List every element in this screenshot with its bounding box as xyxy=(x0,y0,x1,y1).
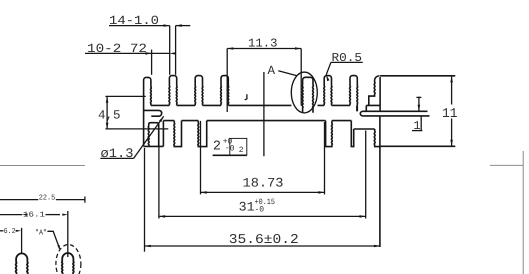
dimension 14-1.0 xyxy=(109,14,190,75)
left wall J-hook xyxy=(144,110,162,116)
label quoted A with leader xyxy=(35,228,60,250)
heatsink upper fin 2 xyxy=(169,76,177,106)
svg-text:R0.5: R0.5 xyxy=(332,51,363,65)
dimension 31 +0.15/-0 xyxy=(159,131,366,219)
detail view fin right (detail A) xyxy=(62,253,74,274)
lower fin D thin xyxy=(351,121,353,147)
floor between fin C and D xyxy=(332,120,351,122)
heatsink profile left wall and fin 1 xyxy=(144,77,152,146)
label R0.5 with leader xyxy=(326,51,363,81)
block top flat surface xyxy=(380,75,455,77)
lower fin C xyxy=(326,121,333,147)
notch above slot cap xyxy=(357,105,366,111)
dimension 22.5 xyxy=(0,193,85,202)
svg-text:22.5: 22.5 xyxy=(39,193,56,202)
detail ellipse A xyxy=(291,72,317,113)
dimension 11 xyxy=(441,76,459,146)
small tick mark xyxy=(245,94,247,100)
dimension 18.73 xyxy=(201,121,325,194)
dimension 1 at slot xyxy=(412,97,422,134)
dashed detail ellipse xyxy=(56,245,81,274)
slot rounded left cap xyxy=(360,111,363,116)
svg-text:31: 31 xyxy=(239,200,255,215)
dimension 16.1 xyxy=(0,210,68,257)
slot lower line xyxy=(363,115,430,117)
sheet frame line (gray, left) xyxy=(0,164,85,166)
foot bottom xyxy=(144,145,164,147)
label A with leader xyxy=(268,64,297,78)
slot upper line xyxy=(363,110,428,112)
heatsink upper fin 5 xyxy=(324,76,332,106)
heatsink upper fin 4 xyxy=(221,76,229,106)
block bottom surface xyxy=(380,145,455,147)
dimension 35.6 +-0.2 xyxy=(145,148,381,252)
lower fin A xyxy=(174,121,182,147)
heatsink upper fin 6 xyxy=(350,76,358,106)
detail view fin left xyxy=(16,253,28,274)
recessed channel floor under slot xyxy=(354,128,375,130)
sheet frame corner (gray, right) xyxy=(490,151,523,274)
lower fin B xyxy=(198,121,207,147)
screw slot (o1.3) xyxy=(148,123,158,147)
lower fin E xyxy=(374,129,380,147)
block corner lip with serrated edge xyxy=(369,76,380,106)
svg-text:0: 0 xyxy=(230,145,235,154)
svg-text:"A": "A" xyxy=(35,228,47,237)
upper channel floor lines xyxy=(151,104,380,106)
dimension 11.3 xyxy=(227,37,301,112)
svg-text:6.2: 6.2 xyxy=(4,227,16,236)
block left edge lower / 35.6 extension xyxy=(379,117,381,247)
svg-text:18.73: 18.73 xyxy=(243,176,284,191)
base bottom left segments xyxy=(163,120,198,122)
foot right edge xyxy=(162,121,164,147)
heatsink upper fin 3 xyxy=(195,76,203,106)
svg-text:A: A xyxy=(268,64,276,78)
block left edge upper xyxy=(379,77,381,111)
svg-text:4,5: 4,5 xyxy=(98,108,121,122)
base bottom middle flat xyxy=(207,120,326,122)
svg-text:2: 2 xyxy=(213,140,221,155)
dimension 4.5 xyxy=(98,96,168,128)
svg-text:11: 11 xyxy=(442,107,458,122)
svg-text:2: 2 xyxy=(239,146,244,155)
dimension 6.2 xyxy=(0,227,22,253)
dimension 10-2.72 xyxy=(85,42,176,75)
dimension o1.3 with leader xyxy=(100,116,163,161)
callout 2 +0/-0.2 xyxy=(213,72,264,156)
circled fin (detail A target) xyxy=(302,77,313,113)
svg-text:-0: -0 xyxy=(255,205,265,214)
fin9 right edge extension to slot xyxy=(356,105,358,111)
